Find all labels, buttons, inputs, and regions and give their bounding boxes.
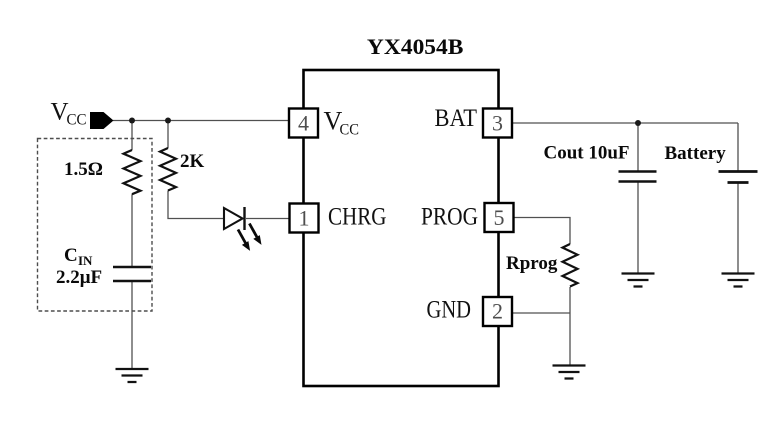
svg-text:IN: IN xyxy=(78,253,93,268)
svg-text:CC: CC xyxy=(340,122,360,139)
input filter dashed box xyxy=(38,139,153,312)
wire resistor R2 to LED row xyxy=(167,121,169,149)
wire 1.5ohm branch vertical drop xyxy=(131,121,133,151)
svg-text:2: 2 xyxy=(492,299,503,324)
wire resistor R1 to capacitor CIN xyxy=(131,194,133,267)
pin 3 box xyxy=(483,109,512,138)
svg-text:1.5Ω: 1.5Ω xyxy=(64,159,103,180)
wire pin 2 to Rprog ground net xyxy=(512,312,570,314)
svg-text:3: 3 xyxy=(492,111,503,136)
svg-text:1: 1 xyxy=(299,206,310,231)
wire BAT net pin 3 to battery xyxy=(512,122,738,124)
ground (battery) xyxy=(722,274,755,287)
battery BT1 plates xyxy=(719,172,758,183)
resistor R1 1.5ohm xyxy=(124,150,141,194)
svg-text:5: 5 xyxy=(494,205,505,230)
svg-text:Cout 10uF: Cout 10uF xyxy=(544,143,630,164)
pin 4 box xyxy=(289,109,318,138)
pin 2 box xyxy=(483,297,512,326)
pin 1 box xyxy=(290,204,319,233)
LED D1 emission arrow 2 xyxy=(249,224,257,238)
svg-text:Battery: Battery xyxy=(665,143,727,164)
ground (input side) xyxy=(116,369,149,382)
resistor R2 2K xyxy=(160,148,176,191)
junction node at 2K branch xyxy=(165,118,171,124)
wire pin 5 to Rprog xyxy=(514,218,571,245)
wire LED cathode to pin 1 xyxy=(246,218,290,220)
resistor Rprog xyxy=(563,244,578,287)
svg-text:GND: GND xyxy=(427,297,472,324)
VCC input flag xyxy=(90,112,114,129)
svg-text:PROG: PROG xyxy=(421,204,478,231)
junction node at Cout branch xyxy=(635,120,641,126)
LED D1 triangle xyxy=(224,208,243,229)
wire Rprog bottom to ground xyxy=(569,287,571,366)
wire battery branch xyxy=(737,123,739,274)
svg-text:2K: 2K xyxy=(180,151,205,172)
svg-text:CC: CC xyxy=(67,112,87,129)
wire capacitor CIN to ground xyxy=(131,281,133,369)
wire VCC input net (flag to pin 4) xyxy=(113,120,289,122)
capacitor Cout plates xyxy=(619,172,657,182)
pin 5 box xyxy=(485,203,514,232)
wire Cout branch xyxy=(637,123,639,274)
svg-text:2.2μF: 2.2μF xyxy=(56,267,102,288)
junction node at 1.5ohm branch xyxy=(129,118,135,124)
ground (Cout) xyxy=(622,274,655,287)
svg-text:CHRG: CHRG xyxy=(328,204,387,231)
ground (Rprog / pin 2) xyxy=(553,366,586,379)
svg-text:4: 4 xyxy=(298,111,309,136)
svg-text:C: C xyxy=(64,245,78,266)
svg-text:BAT: BAT xyxy=(435,105,478,132)
LED D1 cathode bar xyxy=(243,207,245,230)
IC U1 body outline xyxy=(304,70,499,386)
LED D1 emission arrow 1 xyxy=(238,230,246,244)
capacitor CIN plates xyxy=(113,267,151,281)
svg-text:Rprog: Rprog xyxy=(506,253,558,274)
svg-text:YX4054B: YX4054B xyxy=(367,34,464,59)
